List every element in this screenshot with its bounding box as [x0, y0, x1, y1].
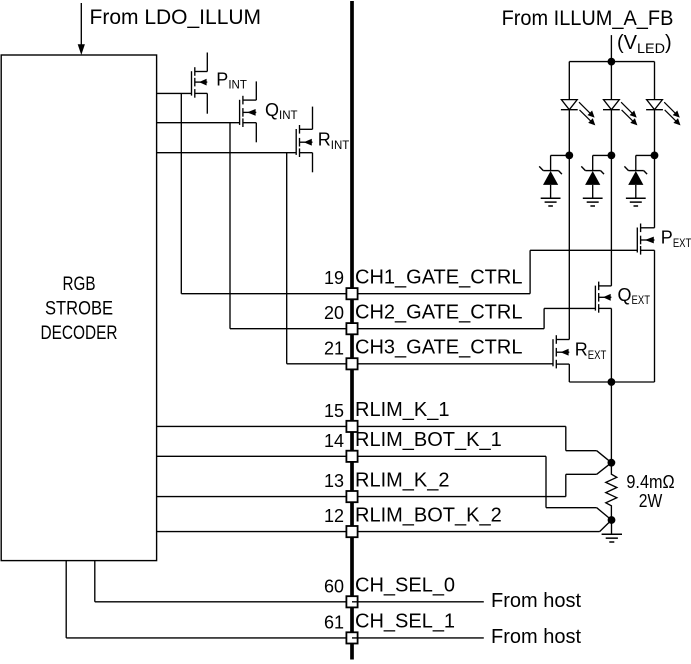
wire RLIM_K_2 run2 [566, 473, 597, 475]
wire CH3 gate net drop to pin 21 [286, 153, 288, 364]
wire RLIM_K_2 diagonal to R1 top [597, 463, 612, 475]
wire CH2_GATE_CTRL to Q_EXT gate [544, 307, 595, 309]
wire sense rail [569, 381, 654, 383]
svg-text:RLIM_K_2: RLIM_K_2 [355, 469, 450, 491]
wire branch2 LED to Q_EXT drain [610, 110, 612, 286]
wire RLIM_BOT_K_1 run2 [546, 507, 597, 509]
svg-text:CH2_GATE_CTRL: CH2_GATE_CTRL [355, 301, 522, 323]
ground of Z3 [626, 198, 646, 206]
wire branch3 rail to LED D3 [654, 62, 656, 100]
wire RLIM_K_2 decoder to pin 13 [156, 496, 352, 498]
wire RLIM_K_2 pin 13 run [352, 496, 566, 498]
ground of Z2 [583, 198, 603, 206]
wire CH1 net to pin 19 [181, 293, 352, 295]
wire RLIM_BOT_K_1 diagonal to R1 bottom [597, 508, 612, 520]
svg-text:61: 61 [324, 612, 344, 632]
TVS diode Z1 [539, 155, 562, 198]
wire RLIM_K_1 run2 [566, 450, 597, 452]
wire branch3 LED to P_EXT drain [654, 110, 656, 228]
wire CH_SEL_0 to pin 60 [95, 601, 352, 603]
wire RLIM_BOT_K_2 pin 12 run [352, 531, 600, 533]
wire CH1_GATE_CTRL riser [529, 250, 531, 293]
svg-text:From LDO_ILLUM: From LDO_ILLUM [90, 6, 262, 29]
wire RLIM_K_1 diagonal to R1 top [597, 451, 612, 463]
pin 60 terminal [346, 596, 357, 607]
node sense resistor top [608, 459, 616, 467]
transistor Q_EXT [595, 282, 611, 313]
wire P_EXT source to sense rail [654, 250, 656, 382]
transistor Q_INT [240, 81, 257, 142]
svg-text:14: 14 [324, 431, 344, 451]
wire branch2 to sense resistor [610, 382, 612, 463]
chip boundary bus line [350, 1, 354, 660]
wire CH2 gate net drop to pin 20 [229, 123, 231, 329]
wire CH2 net to pin 20 [230, 328, 352, 330]
wire R1 bottom to ground [611, 520, 613, 534]
wire R_INT gate from decoder [156, 152, 296, 154]
svg-text:STROBE: STROBE [45, 299, 113, 320]
ground of R1 [602, 534, 622, 542]
pin 61 terminal [346, 632, 357, 643]
RGB strobe decoder block U1 [1, 55, 156, 561]
label R1 value [626, 472, 674, 511]
node branch1 TVS tap [565, 152, 573, 160]
wire CH2_GATE_CTRL riser [543, 308, 545, 328]
svg-text:From ILLUM_A_FB: From ILLUM_A_FB [502, 7, 674, 30]
wire P_INT gate from decoder [156, 92, 191, 94]
wire CH_SEL_1 decoder drop [65, 561, 67, 638]
node VLED rail junction [608, 58, 616, 66]
wire TVS Z2 stub [593, 154, 612, 156]
pin 15 terminal [346, 421, 357, 432]
pin 12 terminal [346, 526, 357, 537]
transistor R_EXT [553, 335, 569, 368]
svg-text:CH1_GATE_CTRL: CH1_GATE_CTRL [355, 266, 522, 288]
svg-text:CH_SEL_1: CH_SEL_1 [355, 611, 455, 633]
wire RLIM_K_1 decoder to pin 15 [156, 425, 352, 427]
svg-text:CH3_GATE_CTRL: CH3_GATE_CTRL [355, 337, 522, 359]
decoder block label [41, 274, 118, 344]
wire CH1 gate net drop to pin 19 [180, 93, 182, 293]
pin 19 terminal [346, 288, 357, 299]
input arrow from LDO_ILLUM into decoder [78, 3, 85, 55]
pin 14 terminal [346, 451, 357, 462]
wire from ILLUM_A_FB down to rail [610, 35, 612, 62]
wire pin 60 to host [352, 601, 484, 603]
wire branch2 rail to LED D2 [610, 62, 612, 100]
wire RLIM_BOT_K_1 drop [545, 456, 547, 507]
wire VLED top rail [569, 61, 654, 63]
svg-text:20: 20 [324, 303, 344, 323]
wire RLIM_K_1 pin 15 run [352, 425, 566, 427]
wire RLIM_BOT_K_2 diagonal to R1 bottom [600, 520, 612, 532]
svg-text:CH_SEL_0: CH_SEL_0 [355, 575, 455, 597]
wire CH3 net to pin 21 [287, 363, 352, 365]
wire branch1 LED to R_EXT drain [568, 110, 570, 340]
pin 20 terminal [346, 323, 357, 334]
node branch3 TVS tap [651, 152, 659, 160]
resistor R1 9.4mOhm [606, 463, 617, 520]
svg-text:21: 21 [324, 338, 344, 358]
svg-text:13: 13 [324, 471, 344, 491]
wire CH3_GATE_CTRL pin 21 to R_EXT gate [352, 363, 553, 365]
wire RLIM_K_1 drop [565, 426, 567, 450]
transistor R_INT [296, 107, 312, 173]
wire CH1_GATE_CTRL pin 19 run [352, 293, 530, 295]
node sense rail junction [608, 378, 616, 386]
wire RLIM_BOT_K_1 pin 14 run [352, 455, 546, 457]
svg-text:DECODER: DECODER [41, 323, 118, 344]
transistor P_INT [192, 53, 208, 114]
wire pin 61 to host [352, 637, 484, 639]
wire CH1_GATE_CTRL to P_EXT gate [530, 249, 637, 251]
svg-text:RGB: RGB [63, 274, 96, 295]
LED D2 [603, 100, 637, 126]
wire RLIM_BOT_K_2 decoder to pin 12 [156, 531, 352, 533]
pin 21 terminal [346, 358, 357, 369]
wire Q_EXT source to sense rail [610, 308, 612, 382]
wire CH_SEL_1 to pin 61 [66, 637, 352, 639]
LED D3 [646, 100, 680, 126]
svg-text:RLIM_BOT_K_1: RLIM_BOT_K_1 [355, 429, 502, 451]
node branch2 TVS tap [608, 152, 616, 160]
LED D1 [561, 100, 595, 126]
transistor P_EXT [637, 224, 654, 255]
wire R_EXT source to sense rail [568, 364, 570, 382]
ground of Z1 [541, 198, 561, 206]
svg-text:2W: 2W [639, 491, 663, 511]
svg-text:9.4mΩ: 9.4mΩ [626, 472, 674, 492]
svg-text:12: 12 [324, 506, 344, 526]
svg-text:15: 15 [324, 401, 344, 421]
svg-text:From host: From host [491, 590, 581, 612]
wire Q_INT gate from decoder [156, 122, 239, 124]
svg-text:RLIM_K_1: RLIM_K_1 [355, 399, 450, 421]
TVS diode Z3 [624, 155, 647, 198]
pin 13 terminal [346, 491, 357, 502]
svg-text:From host: From host [491, 626, 581, 648]
wire CH_SEL_0 decoder drop [94, 561, 96, 602]
node sense resistor bottom [608, 516, 616, 524]
svg-text:60: 60 [324, 576, 344, 596]
wire TVS Z3 stub [636, 154, 655, 156]
wire TVS Z1 stub [551, 154, 570, 156]
wire branch1 rail to LED D1 [568, 62, 570, 100]
TVS diode Z2 [581, 155, 604, 198]
wire CH2_GATE_CTRL pin 20 run [352, 328, 544, 330]
svg-text:19: 19 [324, 268, 344, 288]
svg-text:RLIM_BOT_K_2: RLIM_BOT_K_2 [355, 504, 502, 526]
wire RLIM_BOT_K_1 decoder to pin 14 [156, 455, 352, 457]
wire RLIM_K_2 rise [565, 474, 567, 496]
